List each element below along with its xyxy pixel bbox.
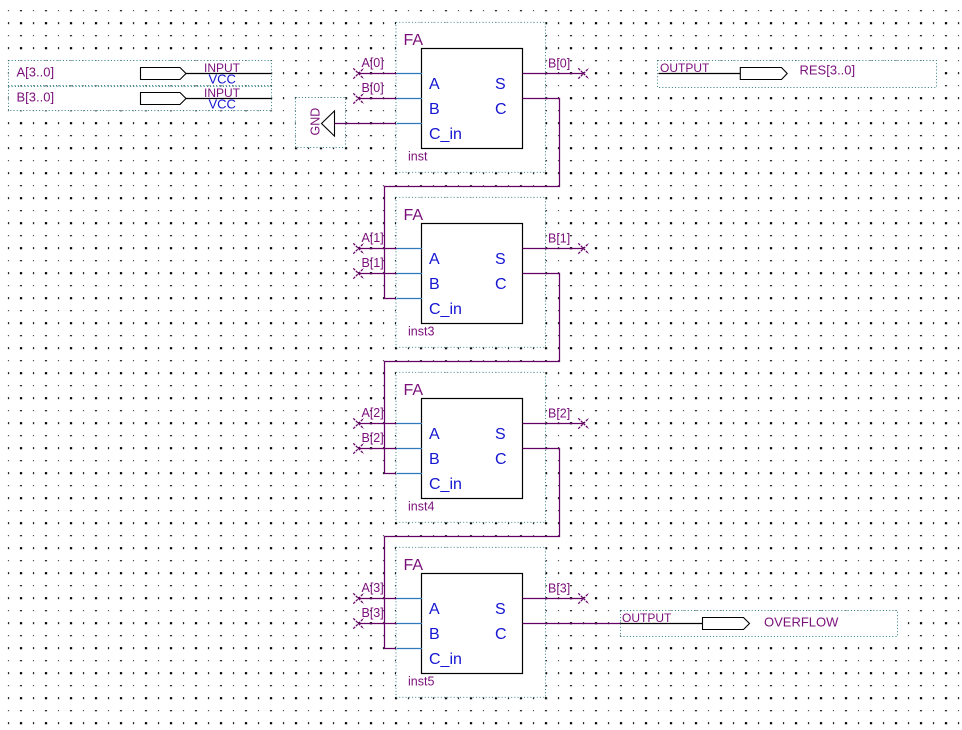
wire input B[3] to inst5.B: [353, 618, 396, 628]
pin stub C_in of inst: [397, 123, 423, 125]
output pin OVERFLOW: [621, 611, 898, 637]
full adder inst3 (FA): [396, 197, 546, 347]
svg-text:A[3]: A[3]: [362, 581, 384, 595]
svg-text:inst3: inst3: [408, 325, 434, 339]
svg-text:OUTPUT: OUTPUT: [660, 61, 710, 75]
svg-text:A[1]: A[1]: [362, 231, 384, 245]
full adder inst4 (FA): [396, 372, 546, 522]
svg-text:FA: FA: [404, 32, 424, 49]
pin stub B of inst4: [397, 448, 423, 450]
svg-text:B[3]: B[3]: [362, 606, 384, 620]
svg-text:GND: GND: [309, 108, 323, 136]
svg-text:B[3..0]: B[3..0]: [17, 89, 55, 104]
svg-text:FA: FA: [404, 557, 424, 574]
svg-text:A: A: [429, 76, 440, 93]
input pin A[3..0]: [9, 61, 272, 87]
svg-text:C: C: [495, 626, 507, 643]
svg-text:S: S: [495, 76, 506, 93]
wire inst.S output B[0]: [523, 68, 589, 78]
wire input A[3] to inst5.A: [353, 593, 396, 603]
svg-text:inst: inst: [408, 150, 428, 164]
svg-text:B[1]: B[1]: [362, 256, 384, 270]
svg-text:B: B: [429, 451, 440, 468]
wire input A[1] to inst3.A: [353, 243, 396, 253]
svg-text:C_in: C_in: [429, 301, 462, 318]
svg-text:FA: FA: [404, 382, 424, 399]
svg-text:C: C: [495, 276, 507, 293]
svg-text:B: B: [429, 276, 440, 293]
wire input A[0] to inst.A: [353, 68, 396, 78]
wire input B[1] to inst3.B: [353, 268, 396, 278]
wire carry inst5.C to OVERFLOW: [523, 623, 621, 625]
svg-text:VCC: VCC: [209, 71, 236, 86]
svg-text:A[0]: A[0]: [362, 56, 384, 70]
wire inst5.S output B[3]: [523, 593, 589, 603]
svg-text:VCC: VCC: [209, 96, 236, 111]
pin stub C_in of inst5: [397, 648, 423, 650]
svg-text:A[3..0]: A[3..0]: [17, 64, 55, 79]
pin stub A of inst: [397, 73, 423, 75]
svg-text:OUTPUT: OUTPUT: [622, 611, 672, 625]
svg-text:B[0]: B[0]: [548, 57, 570, 71]
svg-text:A[2]: A[2]: [362, 406, 384, 420]
wire inst3.S output B[1]: [523, 243, 589, 253]
svg-text:B[2]: B[2]: [362, 431, 384, 445]
svg-text:C_in: C_in: [429, 651, 462, 668]
svg-text:C_in: C_in: [429, 476, 462, 493]
svg-text:B: B: [429, 101, 440, 118]
output pin RES[3..0]: [658, 61, 937, 88]
svg-text:inst4: inst4: [408, 500, 434, 514]
svg-text:S: S: [495, 426, 506, 443]
svg-text:inst5: inst5: [408, 675, 434, 689]
svg-text:A: A: [429, 601, 440, 618]
svg-text:RES[3..0]: RES[3..0]: [800, 63, 856, 78]
svg-text:A: A: [429, 251, 440, 268]
pin stub C_in of inst3: [397, 298, 423, 300]
svg-text:S: S: [495, 601, 506, 618]
ground GND: [296, 98, 346, 148]
full adder inst5 (FA): [396, 547, 546, 697]
svg-text:B: B: [429, 626, 440, 643]
wire input A[2] to inst4.A: [353, 418, 396, 428]
pin stub A of inst5: [397, 598, 423, 600]
svg-text:B[3]: B[3]: [548, 582, 570, 596]
pin stub A of inst3: [397, 248, 423, 250]
wire GND to inst C_in: [335, 123, 397, 125]
svg-text:A: A: [429, 426, 440, 443]
svg-text:C: C: [495, 101, 507, 118]
pin stub B of inst3: [397, 273, 423, 275]
wire carry inst.C to next C_in: [385, 99, 560, 299]
pin stub A of inst4: [397, 423, 423, 425]
wire inst4.S output B[2]: [523, 418, 589, 428]
svg-text:S: S: [495, 251, 506, 268]
wire carry inst4.C to next C_in: [385, 449, 560, 649]
pin stub C_in of inst4: [397, 473, 423, 475]
full adder inst (FA): [396, 22, 546, 172]
pin stub B of inst: [397, 98, 423, 100]
svg-text:B[1]: B[1]: [548, 232, 570, 246]
wire input B[2] to inst4.B: [353, 443, 396, 453]
svg-text:B[0]: B[0]: [362, 81, 384, 95]
wire input B[0] to inst.B: [353, 93, 396, 103]
pin stub B of inst5: [397, 623, 423, 625]
svg-text:B[2]: B[2]: [548, 407, 570, 421]
input pin B[3..0]: [9, 86, 272, 111]
wire carry inst3.C to next C_in: [385, 274, 560, 474]
svg-text:FA: FA: [404, 207, 424, 224]
svg-text:C_in: C_in: [429, 126, 462, 143]
svg-text:C: C: [495, 451, 507, 468]
svg-text:OVERFLOW: OVERFLOW: [764, 615, 839, 630]
